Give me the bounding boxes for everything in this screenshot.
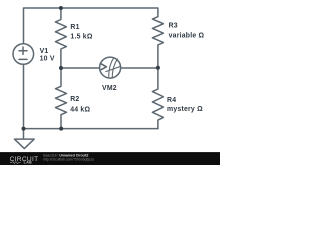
resistor R3 <box>152 13 163 69</box>
node junction middle left <box>59 66 63 70</box>
footer bar <box>0 152 220 165</box>
node junction bottom R2 <box>59 127 63 131</box>
svg-text:mystery Ω: mystery Ω <box>167 106 203 113</box>
wire bottom rail <box>24 128 158 130</box>
svg-text:VM2: VM2 <box>102 85 117 92</box>
wire middle left <box>61 67 100 69</box>
svg-text:LAB: LAB <box>24 161 33 165</box>
svg-text:http://circuitlab.com/75h0u6q6: http://circuitlab.com/75h0u6q6p2a <box>43 158 94 162</box>
node junction top R1 <box>59 6 63 10</box>
svg-text:R1: R1 <box>70 24 79 31</box>
svg-text:44 kΩ: 44 kΩ <box>70 106 90 113</box>
node junction middle right <box>156 66 160 70</box>
ground <box>14 129 34 149</box>
wire left rail lower <box>23 64 25 128</box>
svg-text:variable Ω: variable Ω <box>169 32 205 39</box>
svg-text:V1: V1 <box>40 48 49 55</box>
wire top rail <box>24 8 158 44</box>
resistor R1 <box>55 8 66 68</box>
svg-text:R3: R3 <box>169 23 178 30</box>
voltage source V1 <box>13 44 34 65</box>
svg-text:R2: R2 <box>70 96 79 103</box>
wire middle right <box>121 67 158 69</box>
resistor R2 <box>56 68 67 129</box>
svg-text:1.5 kΩ: 1.5 kΩ <box>70 34 92 41</box>
svg-text:10 V: 10 V <box>40 55 55 62</box>
resistor R4 <box>152 68 163 129</box>
node junction bottom ground <box>22 127 26 131</box>
CircuitLab logo <box>10 156 39 165</box>
voltmeter VM2 <box>100 57 121 78</box>
svg-text:R4: R4 <box>167 97 176 104</box>
